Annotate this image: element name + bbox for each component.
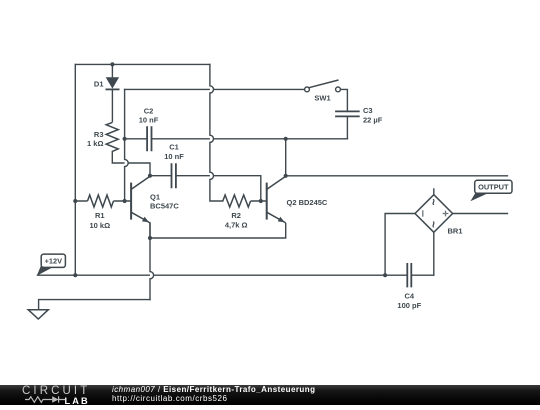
wire SW1 to C3 xyxy=(340,89,347,111)
wire C2 net horizontal xyxy=(125,138,348,140)
svg-text:~: ~ xyxy=(427,221,441,228)
svg-text:BR1: BR1 xyxy=(448,227,463,236)
wire hop at mid vertical over C1 net xyxy=(210,172,214,179)
wire hop at D1 branch over R3 wire xyxy=(125,159,129,166)
net flag OUTPUT xyxy=(470,180,512,201)
junction C2 net to Q2 collector branch xyxy=(284,137,288,141)
wire Q2 collector to output xyxy=(286,139,508,176)
svg-text:1 kΩ: 1 kΩ xyxy=(87,139,103,148)
svg-text:C4: C4 xyxy=(405,292,415,301)
junction Q1 emitter on emitter rail xyxy=(148,236,152,240)
wire left rail xyxy=(74,64,76,275)
svg-text:10 nF: 10 nF xyxy=(164,152,184,161)
wire BR1 left leg xyxy=(385,214,415,276)
svg-text:R3: R3 xyxy=(94,130,104,139)
junction C2 left on D1 branch xyxy=(123,137,127,141)
svg-text:R1: R1 xyxy=(95,211,105,220)
wire hop at mid vertical over C2 net xyxy=(210,135,214,142)
wire BR1 bottom leg xyxy=(433,232,435,275)
svg-text:D1: D1 xyxy=(94,80,104,89)
junction R1 left on left rail xyxy=(73,199,77,203)
logo squiggle xyxy=(25,395,65,404)
wire +12V rail xyxy=(38,274,434,276)
svg-text:BC547C: BC547C xyxy=(150,202,179,211)
credit text xyxy=(112,385,315,404)
svg-text:R2: R2 xyxy=(231,211,241,220)
svg-text:100 pF: 100 pF xyxy=(397,301,421,310)
diode D1 xyxy=(94,64,120,122)
wire hop at ground leg over +12V rail xyxy=(150,272,154,279)
capacitor C3 xyxy=(335,106,383,125)
wire top rail xyxy=(75,63,210,65)
svg-text:Q2 BD245C: Q2 BD245C xyxy=(287,198,328,207)
svg-text:4,7k Ω: 4,7k Ω xyxy=(225,221,248,230)
wire ground run xyxy=(39,300,150,310)
ground xyxy=(28,310,48,319)
capacitor C1 xyxy=(164,143,184,189)
svg-text:~: ~ xyxy=(427,198,441,205)
resistor R2 xyxy=(223,195,267,230)
wire C1 net horizontal xyxy=(150,176,261,201)
wire emitter rail xyxy=(150,237,286,239)
wire BR1 right to output xyxy=(453,213,508,215)
switch SW1 xyxy=(305,80,341,102)
footer bar xyxy=(0,385,540,405)
wire mid vertical to R2 xyxy=(210,64,223,201)
svg-text:10 nF: 10 nF xyxy=(139,115,159,124)
bridge rectifier BR1 xyxy=(415,188,463,235)
svg-text:C1: C1 xyxy=(169,143,179,152)
junction Q1 base node xyxy=(123,199,127,203)
wire node B horizontal (D1 cathode level) xyxy=(125,88,305,90)
svg-text:10 kΩ: 10 kΩ xyxy=(89,221,110,230)
svg-text:+12V: +12V xyxy=(45,257,63,266)
wire C3 bottom lead xyxy=(346,116,348,138)
junction BR1 left leg on +12V rail xyxy=(383,273,387,277)
junction D1 anode on top rail xyxy=(110,62,114,66)
capacitor C2 xyxy=(139,106,159,151)
capacitor C4 xyxy=(397,263,421,310)
wire R3 bottom to collector node xyxy=(112,151,150,175)
svg-text:C2: C2 xyxy=(144,106,154,115)
wire Q1 emitter to ground xyxy=(149,223,151,300)
svg-text:SW1: SW1 xyxy=(314,93,330,102)
wire hop at mid vertical over node B wire xyxy=(210,86,214,93)
resistor R3 xyxy=(87,122,118,151)
junction left rail on +12V rail xyxy=(73,273,77,277)
junction Q2 base node xyxy=(259,199,263,203)
transistor Q1 xyxy=(131,176,179,238)
transistor Q2 xyxy=(267,176,328,238)
svg-text:Q1: Q1 xyxy=(150,193,160,202)
svg-text:22 µF: 22 µF xyxy=(363,116,383,125)
wire D1 branch vertical xyxy=(124,89,126,201)
net flag +12V xyxy=(37,254,66,276)
junction Q2 collector node xyxy=(284,174,288,178)
svg-text:C3: C3 xyxy=(363,106,373,115)
resistor R1 xyxy=(75,195,131,230)
svg-text:OUTPUT: OUTPUT xyxy=(478,183,509,192)
junction Q1 collector / C1 node xyxy=(148,174,152,178)
CircuitLab logo text xyxy=(22,385,90,397)
